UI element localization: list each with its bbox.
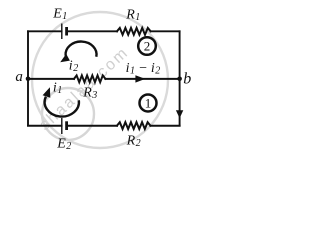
svg-text:a: a xyxy=(15,69,23,85)
svg-text:1: 1 xyxy=(145,96,152,111)
svg-text:2: 2 xyxy=(144,39,151,54)
svg-text:b: b xyxy=(183,71,191,88)
